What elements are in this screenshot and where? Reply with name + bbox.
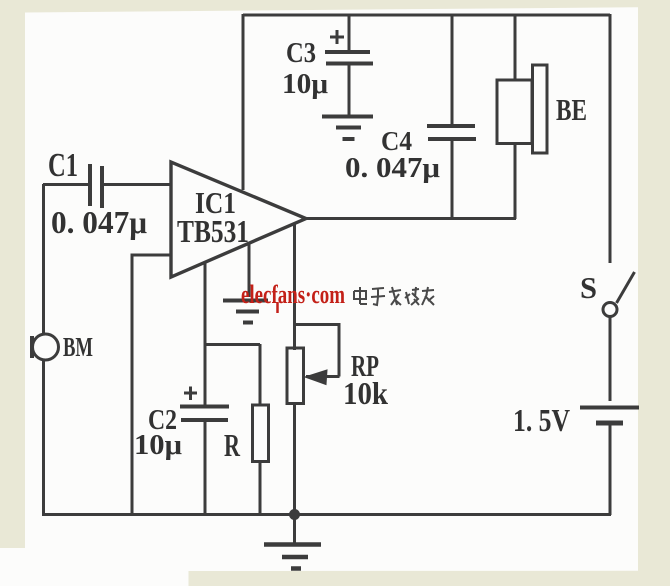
capacitor C2 — [134, 387, 229, 516]
wire IC1 ground pin — [248, 243, 251, 297]
svg-text:BE: BE — [556, 92, 587, 127]
watermark 电子发烧友 — [354, 287, 434, 305]
capacitor C1 — [43, 147, 171, 240]
wire output rail — [305, 217, 516, 220]
svg-text:10μ: 10μ — [134, 429, 183, 461]
wire IC1 bias pin to C2 and R — [204, 262, 260, 406]
ground bottom center — [264, 514, 321, 569]
wire inverting input — [132, 255, 171, 515]
ground under C3 — [322, 117, 373, 140]
svg-text:0. 047μ: 0. 047μ — [51, 204, 147, 240]
resistor R — [224, 344, 269, 515]
wire feedback from IC1 to RP — [293, 223, 296, 350]
svg-text:BM: BM — [63, 332, 93, 362]
wire left rail — [42, 184, 45, 515]
ground under IC1 — [223, 301, 268, 323]
watermark elecfans.com — [241, 280, 345, 313]
speaker BE — [497, 14, 587, 219]
svg-text:0. 047μ: 0. 047μ — [345, 152, 441, 184]
potentiometer RP 10k — [287, 325, 388, 515]
svg-text:10k: 10k — [343, 375, 388, 411]
capacitor C4 — [345, 14, 476, 219]
node junction at bottom rail — [289, 509, 300, 520]
battery 1.5V — [513, 402, 639, 515]
svg-text:elecfans·com: elecfans·com — [241, 280, 345, 309]
wire bottom rail — [42, 513, 611, 516]
svg-text:S: S — [580, 270, 597, 305]
microphone BM — [32, 332, 93, 362]
capacitor C3 — [282, 14, 373, 116]
svg-text:1. 5V: 1. 5V — [513, 402, 570, 438]
svg-text:C3: C3 — [286, 37, 316, 69]
wire right supply rail — [609, 14, 612, 263]
svg-text:10μ: 10μ — [282, 68, 329, 100]
switch S — [580, 270, 635, 401]
svg-text:TB531: TB531 — [177, 213, 249, 249]
wire top supply rail — [243, 14, 610, 17]
svg-text:C1: C1 — [48, 147, 78, 184]
wire power pin to IC1 top edge — [242, 14, 245, 190]
svg-text:R: R — [224, 427, 241, 463]
op-amp IC1 TB531 — [171, 162, 306, 277]
